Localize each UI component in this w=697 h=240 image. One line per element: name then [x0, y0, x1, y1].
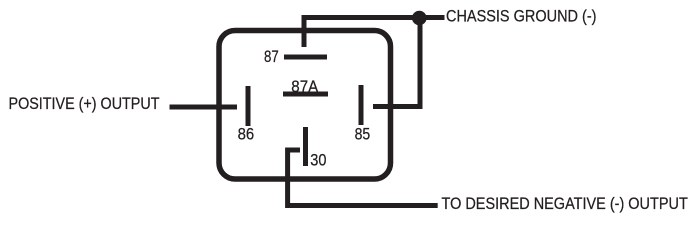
svg-text:86: 86 [238, 126, 255, 144]
svg-text:87A: 87A [291, 78, 318, 96]
svg-text:CHASSIS GROUND (-): CHASSIS GROUND (-) [446, 7, 597, 25]
svg-text:85: 85 [355, 126, 371, 144]
svg-text:TO DESIRED NEGATIVE (-) OUTPUT: TO DESIRED NEGATIVE (-) OUTPUT [442, 195, 688, 213]
svg-text:30: 30 [310, 152, 326, 170]
svg-text:87: 87 [264, 48, 279, 66]
svg-text:POSITIVE (+) OUTPUT: POSITIVE (+) OUTPUT [9, 95, 160, 113]
